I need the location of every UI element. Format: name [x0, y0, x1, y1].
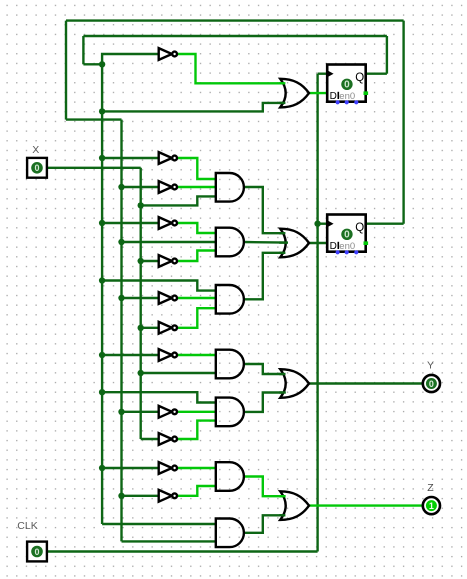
wire V1 tap to inverter U10 input — [102, 467, 160, 469]
junction V1 tap U10 — [99, 465, 105, 471]
inverter U6b — [159, 322, 177, 334]
wire bus V3 (X) — [139, 168, 141, 439]
wire Q1 left drop — [82, 36, 84, 64]
svg-text:X: X — [32, 144, 39, 156]
wire V1 up branch to inverter U1 input — [102, 54, 160, 64]
inverter U6 — [159, 292, 177, 304]
svg-text:Z: Z — [427, 482, 434, 494]
junction V1 tap U7 — [99, 352, 105, 358]
input pin X — [27, 158, 47, 178]
wire AND6 output to OR4 upper input — [244, 477, 282, 497]
svg-text:Y: Y — [427, 360, 434, 372]
wire U6b output to AND3 lower input — [177, 308, 217, 328]
svg-text:Q: Q — [355, 222, 364, 234]
wire OR3 output to Y pin — [309, 382, 423, 384]
wire V2 to AND7 lower input — [122, 540, 217, 542]
svg-text:en0: en0 — [339, 91, 355, 102]
wire FF1.Q to riser — [366, 72, 387, 74]
AND gate A4 — [216, 350, 244, 379]
wire V3 tap to AND1 lower input — [141, 196, 217, 205]
inverter U7 — [159, 349, 177, 361]
wire V2 tap to inverter U12 input — [122, 495, 160, 497]
wire U4 output to AND2 upper input — [177, 223, 217, 233]
wire AND5 output to OR3 lower input — [244, 393, 282, 412]
svg-text:0: 0 — [34, 163, 39, 173]
D flip-flop FF2 — [327, 215, 368, 255]
wire Q0 top run — [66, 19, 404, 21]
junction V2 tap AND2 — [118, 239, 124, 245]
inverter U2 — [159, 152, 177, 164]
wire U6 output to AND3 middle input — [177, 297, 217, 299]
wire OR4 output to Z pin — [309, 504, 423, 506]
wire AND7 output to OR4 lower input — [244, 515, 282, 533]
wire U8 output to AND5 lower input — [177, 421, 217, 439]
wire V3 to inverter U8 input — [141, 438, 160, 440]
junction CLK at FF2 clock — [314, 221, 320, 227]
OR gate O1 — [279, 79, 309, 108]
wire bus V2 (Q0) — [120, 120, 122, 542]
D flip-flop FF1 — [327, 65, 368, 105]
junction V3 tap AND4 — [138, 370, 144, 376]
wire V3 tap to inverter U5 input — [141, 260, 160, 262]
junction V2 tap U3 — [118, 184, 124, 190]
input pin CLK — [27, 542, 47, 562]
wire bus V1 (Q1) — [101, 64, 103, 524]
svg-text:D: D — [330, 241, 337, 252]
junction V1 tap AND3 — [99, 277, 105, 283]
wire U9 output to AND5 middle input — [177, 411, 217, 413]
junction V2 tap U9 — [118, 409, 124, 415]
inverter U8 — [159, 433, 177, 445]
junction V3 tap AND1 — [138, 202, 144, 208]
wire Q1 into bus V1 — [83, 63, 102, 65]
wire OR1 output to FF1.D — [309, 92, 328, 94]
svg-text:CLK: CLK — [17, 520, 37, 532]
junction V1 tap AND5 — [99, 389, 105, 395]
wire U10 output to AND6 upper input — [177, 467, 217, 469]
svg-text:0: 0 — [429, 379, 434, 389]
wire V1 tap to inverter U2 input — [102, 157, 160, 159]
inverter U3 — [159, 181, 177, 193]
wire U7 output to AND4 upper input — [177, 354, 217, 356]
AND gate A6 — [216, 462, 244, 491]
junction V3 tap U5 — [138, 258, 144, 264]
wire V1 to AND7 upper input — [102, 523, 217, 525]
inverter U10 — [159, 462, 177, 474]
wire V2 tap to inverter U6 input — [122, 297, 160, 299]
wire V1 tap to OR1 lower input — [102, 103, 282, 112]
wire CLK horizontal from CLK pin — [47, 550, 318, 552]
wire U3 output to AND1 middle input — [177, 186, 217, 188]
wire Q0 left drop — [65, 21, 67, 120]
wire V1 tap to AND5 upper input — [102, 392, 217, 402]
svg-text:0: 0 — [344, 230, 350, 241]
inverter U9 — [159, 406, 177, 418]
svg-text:D: D — [330, 91, 337, 102]
wire AND4 output to OR3 upper input — [244, 364, 282, 374]
wire Q1 top run — [83, 35, 387, 37]
wire V1 tap to inverter U7 input — [102, 354, 160, 356]
svg-text:Q: Q — [355, 72, 364, 84]
wire Q1 riser — [386, 36, 388, 74]
AND gate A1 — [216, 173, 244, 202]
AND gate A2 — [216, 228, 244, 257]
inverter U5 — [159, 255, 177, 267]
svg-text:0: 0 — [344, 80, 350, 91]
svg-text:en0: en0 — [339, 241, 355, 252]
wire AND3 output to OR2 lower input — [244, 253, 282, 299]
junction V2 tap U6 — [118, 295, 124, 301]
wire CLK stub to FF2 clock pin — [318, 222, 329, 224]
wire Q0 into bus V2 — [66, 118, 122, 120]
wire V2 tap to inverter U3 input — [122, 186, 160, 188]
wire OR2 output to FF2.D — [309, 242, 328, 244]
wire Q0 right riser — [402, 21, 404, 224]
AND gate A7 — [216, 519, 244, 548]
wire X pin to bus V3 — [47, 167, 141, 169]
output pin Y — [423, 375, 440, 392]
AND gate A5 — [216, 398, 244, 427]
svg-text:1: 1 — [429, 501, 434, 511]
wire U1 output to OR1 upper input — [177, 54, 282, 83]
inverter U1 (NOT Q1, top) — [159, 48, 177, 60]
wire U12 output to AND6 lower input — [177, 486, 217, 496]
wire V2 tap to AND2 middle input — [122, 241, 217, 243]
inverter U4 — [159, 217, 177, 229]
wire V2 tap to inverter U9 input — [122, 411, 160, 413]
OR gate O2 — [279, 229, 309, 258]
junction V2 tap U12 — [118, 493, 124, 499]
junction V1 top — [99, 61, 105, 67]
wire V3 tap to inverter U6b input — [141, 327, 160, 329]
OR gate O4 — [279, 491, 309, 520]
wire FF2.Q to right riser — [366, 222, 404, 224]
svg-text:0: 0 — [34, 547, 39, 557]
output pin Z — [423, 497, 440, 514]
wire CLK stub to FF1 clock pin — [318, 72, 329, 74]
AND gate A3 — [216, 285, 244, 314]
wire U5 output to AND2 lower input — [177, 251, 217, 262]
inverter U12 — [159, 490, 177, 502]
wire V1 tap to inverter U4 input — [102, 222, 160, 224]
OR gate O3 — [279, 369, 309, 398]
junction V1 tap U4 — [99, 220, 105, 226]
junction V1 tap U2 — [99, 155, 105, 161]
junction V3 tap U6b — [138, 325, 144, 331]
junction V1 tap OR1 — [99, 108, 105, 114]
wire V3 tap to AND4 lower input — [141, 372, 217, 374]
wire U2 output to AND1 upper input — [177, 158, 217, 179]
wire AND1 output to OR2 upper input — [244, 187, 282, 233]
wire V1 tap to AND3 upper input — [102, 281, 217, 291]
wire CLK vertical riser — [316, 74, 318, 552]
wire AND2 output to OR2 middle input — [244, 241, 286, 244]
